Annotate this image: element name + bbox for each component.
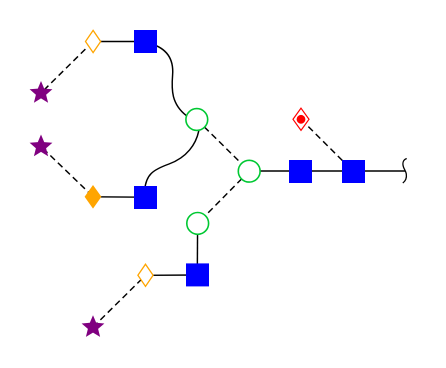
wire: dashed bond star P3 to diamond D3 bbox=[93, 275, 146, 327]
node: green circle C3 (Man) bbox=[187, 213, 209, 235]
wire: dashed bond red diamond RD to square S4 bbox=[301, 119, 353, 171]
wire: solid bond diamond D2 to square S2 bbox=[93, 196, 146, 198]
wire: dashed bond star P2 to diamond D2 bbox=[41, 147, 93, 197]
wire: solid backbone circle C2 to square S3 to square S4 to bracket bbox=[249, 170, 405, 172]
node: blue square S5 (GlcNAc) bbox=[186, 263, 209, 286]
wire: solid bond diamond D3 to square S5 bbox=[146, 274, 198, 276]
node: orange filled diamond D2 bbox=[85, 186, 100, 207]
node: blue square S1 (GlcNAc) bbox=[134, 30, 157, 53]
wire: dashed bond star P1 to diamond D1 bbox=[41, 42, 93, 94]
wire: dashed bond circle C2 to circle C3 bbox=[198, 171, 250, 223]
wire: curved bond square S1 to circle C1 bbox=[150, 44, 197, 120]
node: blue square S2 (GlcNAc) bbox=[134, 186, 157, 209]
node: blue square S3 (GlcNAc) bbox=[289, 160, 312, 183]
node: green circle C1 (Man) bbox=[186, 109, 208, 131]
node: purple star P2 bbox=[30, 135, 53, 157]
wire: dashed bond circle C1 to circle C2 bbox=[197, 120, 249, 172]
wire: curved bond circle C1 to square S2 bbox=[145, 120, 199, 198]
node: blue square S4 (GlcNAc) bbox=[342, 160, 365, 183]
node: green circle C2 (Man) bbox=[238, 160, 260, 182]
node: orange open diamond D1 bbox=[86, 30, 101, 52]
node: red open diamond RD with dot bbox=[293, 108, 309, 130]
bracket: reducing-end squiggle bbox=[403, 159, 407, 184]
wire: solid bond diamond D1 to square S1 bbox=[93, 41, 145, 43]
node: purple star P1 bbox=[30, 81, 53, 103]
node: orange open diamond D3 bbox=[138, 264, 153, 286]
node: purple star P3 bbox=[82, 315, 105, 337]
wire: solid vertical bond circle C3 to square S5 bbox=[196, 223, 198, 274]
